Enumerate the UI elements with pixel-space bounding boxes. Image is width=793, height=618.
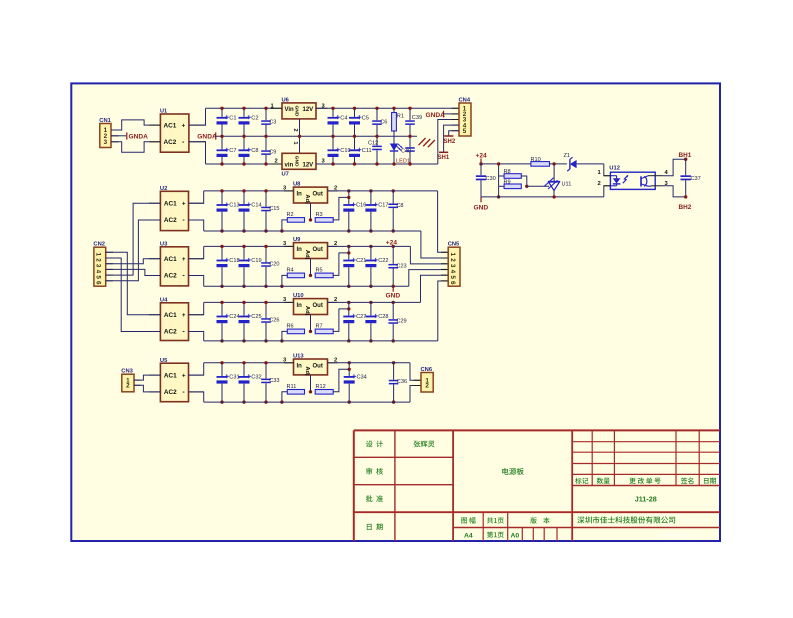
capacitor C26	[261, 302, 279, 341]
svg-text:Adj: Adj	[304, 306, 310, 316]
pin stubs U4	[149, 314, 160, 316]
wire U2 - to bottom rail	[189, 220, 204, 231]
wire CN3 pin1 to U5 AC1	[134, 375, 160, 380]
svg-text:C1: C1	[229, 116, 236, 122]
wire R11 left to bottom rail	[282, 392, 287, 402]
wire row5 return to CN6 pin2	[410, 386, 421, 403]
svg-text:2: 2	[292, 128, 298, 131]
svg-text:GND: GND	[293, 156, 299, 167]
svg-text:C37: C37	[691, 176, 701, 182]
svg-text:SH2: SH2	[444, 139, 456, 145]
svg-text:CN2: CN2	[93, 242, 105, 248]
junction Adj/R6/R7	[309, 330, 312, 333]
svg-text:WENKU.SO: WENKU.SO	[661, 533, 700, 540]
resistor R5	[315, 268, 333, 278]
wire opto top rail	[481, 163, 531, 165]
capacitor C31	[217, 363, 240, 402]
wire R5 right up to output	[333, 253, 349, 276]
svg-text:Adj: Adj	[304, 250, 310, 260]
wire R2 left to bottom rail	[282, 220, 287, 231]
wire row4 output to CN5 pin5	[421, 275, 449, 302]
wire CN2 pin5 to U2 AC1	[106, 203, 161, 275]
power port +24 (opto)	[476, 153, 488, 164]
junction dots C28	[369, 301, 372, 304]
svg-text:AC2: AC2	[164, 217, 177, 224]
svg-text:R10: R10	[531, 157, 541, 163]
earth symbol row1 mid rail	[419, 138, 435, 147]
svg-text:C2: C2	[251, 116, 258, 122]
wire CN2 pin1 to U4 AC1	[106, 252, 161, 314]
svg-text:Adj: Adj	[304, 194, 310, 204]
rectifier U3	[160, 242, 189, 286]
svg-text:+24: +24	[386, 239, 398, 246]
junction R4 at bottom rail	[280, 285, 283, 288]
pin stubs U1	[150, 124, 161, 126]
wire U1 - output to bottom rail	[189, 142, 206, 164]
wire U5 + to top rail	[189, 363, 204, 375]
svg-text:GNDA: GNDA	[426, 112, 446, 119]
LED LED1	[390, 144, 410, 165]
svg-text:+: +	[182, 200, 186, 207]
junction R10 right	[552, 162, 555, 165]
connector CN2	[93, 242, 105, 287]
junction dots C36	[392, 361, 395, 364]
svg-text:In: In	[297, 192, 303, 198]
wire CN1 pin2 stub	[111, 135, 126, 137]
resistor R7	[315, 324, 333, 334]
svg-text:Out: Out	[313, 247, 323, 253]
wire bottom rail to U12 pin2	[604, 186, 611, 197]
svg-text:CN1: CN1	[99, 118, 111, 124]
capacitor C32	[239, 363, 262, 402]
wire bottom rail to CN4 pin3	[438, 120, 459, 165]
wire U3 - to bottom rail	[189, 276, 204, 287]
svg-text:AC2: AC2	[164, 389, 177, 396]
svg-text:R2: R2	[287, 212, 294, 218]
svg-text:C19: C19	[251, 258, 261, 264]
capacitor C12	[368, 136, 382, 164]
capacitor C11	[349, 136, 372, 164]
svg-text:C31: C31	[229, 375, 239, 381]
capacitor C24	[217, 302, 240, 341]
capacitor C8	[388, 191, 403, 231]
wire U9 Adj down	[310, 259, 312, 276]
resistor R11	[287, 384, 305, 394]
svg-text:C8: C8	[396, 203, 403, 209]
junction dots C23	[392, 245, 395, 248]
svg-text:C5: C5	[362, 116, 369, 122]
svg-text:A4: A4	[464, 532, 473, 539]
capacitor C9	[261, 136, 276, 164]
junction R2 at bottom rail	[280, 229, 283, 232]
capacitor C2	[239, 108, 259, 136]
svg-text:4: 4	[95, 270, 102, 274]
svg-text:3: 3	[95, 264, 102, 268]
wire row top rail (U13)	[204, 362, 294, 364]
node +24 junction	[479, 162, 482, 165]
svg-text:C24: C24	[229, 314, 239, 320]
wire R9 junction to U11 ref	[527, 185, 549, 187]
svg-text:+24: +24	[476, 153, 488, 160]
svg-text:U8: U8	[293, 182, 301, 188]
svg-text:5: 5	[95, 275, 102, 279]
rectifier U2	[160, 186, 189, 231]
svg-text:U13: U13	[293, 354, 304, 360]
junction Adj/R4/R5	[309, 274, 312, 277]
svg-text:CN5: CN5	[448, 242, 460, 248]
wire row4 return to CN5 pin6	[438, 281, 448, 341]
svg-text:C21: C21	[356, 258, 366, 264]
pin stubs U8	[284, 190, 294, 192]
svg-text:GNDA: GNDA	[129, 134, 149, 141]
wire U13 Adj down	[310, 375, 312, 392]
wire CN4 pin5 to SH2	[449, 131, 459, 136]
resistor R12	[315, 384, 333, 394]
svg-text:C40: C40	[401, 149, 411, 155]
junction C34 taps	[348, 361, 351, 364]
junction opto left bottom	[497, 195, 500, 198]
pin stubs U12	[604, 175, 611, 177]
svg-text:AC2: AC2	[164, 273, 177, 280]
junction dots left caps	[220, 361, 223, 364]
svg-text:R4: R4	[287, 268, 294, 274]
capacitor C7	[217, 136, 237, 164]
svg-text:AC1: AC1	[164, 256, 177, 263]
svg-text:Out: Out	[313, 192, 323, 198]
resistor R3	[315, 212, 333, 222]
wire row1 bottom rail right	[316, 163, 438, 165]
capacitor C25	[239, 302, 262, 341]
connector CN6	[421, 367, 434, 392]
pin stubs CN5	[441, 251, 448, 253]
wire U4 + to top rail	[189, 302, 204, 314]
capacitor C23	[388, 246, 406, 286]
pin stubs CN3	[134, 379, 141, 381]
capacitor C20	[261, 246, 279, 286]
svg-text:AC1: AC1	[164, 372, 177, 379]
svg-text:U10: U10	[293, 293, 304, 299]
power port GND (row3)	[386, 286, 401, 299]
svg-text:AC2: AC2	[164, 139, 177, 146]
capacitor C5	[349, 108, 369, 136]
schematic sheet	[71, 83, 720, 541]
svg-text:SH1: SH1	[438, 155, 450, 161]
regulator U7	[282, 153, 317, 177]
rectifier U5	[160, 358, 189, 402]
svg-text:Out: Out	[313, 303, 323, 309]
power port GNDA (left)	[127, 132, 148, 140]
pin stubs CN1	[111, 129, 119, 131]
svg-text:R1: R1	[397, 113, 404, 119]
svg-text:5: 5	[463, 128, 467, 135]
svg-text:+: +	[182, 122, 186, 129]
wire opto left divider vertical	[498, 164, 500, 197]
svg-text:12V: 12V	[303, 107, 314, 113]
resistor R8	[499, 169, 522, 178]
resistor R2	[287, 212, 305, 222]
wire U1 + output to top rail	[189, 108, 206, 125]
capacitor C30	[476, 164, 496, 197]
wire CN1 pin1 to U1 AC1	[111, 120, 160, 130]
wire row5 output rail	[328, 362, 411, 364]
capacitor C34	[344, 363, 367, 402]
svg-text:12V: 12V	[303, 162, 314, 168]
svg-text:U12: U12	[609, 166, 620, 172]
svg-text:LED1: LED1	[396, 158, 410, 164]
wire row top rail (U10)	[204, 301, 294, 303]
capacitor C36	[389, 363, 407, 402]
svg-text:R8: R8	[504, 169, 511, 175]
wire row3 return to CN5 pin4	[409, 270, 448, 287]
connector CN3	[121, 369, 134, 392]
resistor R10	[531, 157, 550, 166]
svg-text:C17: C17	[378, 203, 388, 209]
svg-text:C29: C29	[396, 319, 406, 325]
junction dots row1 right rails	[331, 107, 334, 110]
svg-text:U6: U6	[282, 98, 290, 104]
wire U12 pin4 to BH1	[663, 159, 686, 176]
svg-text:C28: C28	[378, 314, 388, 320]
capacitor C17	[365, 191, 388, 231]
connector CN5	[448, 242, 460, 287]
wire R4 left to bottom rail	[282, 275, 287, 286]
capacitor C15	[261, 191, 279, 231]
wire CN3 pin2 to U5 AC2	[134, 385, 160, 392]
capacitor C10	[328, 136, 351, 164]
wire row2 output rail	[328, 190, 438, 192]
svg-text:6: 6	[95, 281, 102, 285]
svg-text:+: +	[182, 372, 186, 379]
capacitor C13	[217, 191, 240, 231]
wire R12 right up to output	[333, 369, 349, 392]
svg-text:3: 3	[104, 139, 108, 146]
title block frame	[354, 430, 720, 541]
svg-text:C30: C30	[486, 176, 496, 182]
svg-text:GNDA: GNDA	[197, 134, 217, 141]
svg-text:4: 4	[449, 270, 456, 274]
capacitor C1	[217, 108, 237, 136]
svg-text:U9: U9	[293, 237, 301, 243]
junction dots left caps	[220, 301, 223, 304]
wire row2 output to CN5 pin1	[438, 191, 449, 252]
svg-text:U7: U7	[282, 172, 289, 178]
wire U8 Adj down	[310, 203, 312, 220]
svg-text:C33: C33	[269, 378, 279, 384]
wire opto bottom rail	[481, 196, 604, 198]
wire opto top rail into U12 pin1	[604, 164, 611, 176]
svg-text:CN3: CN3	[121, 369, 133, 375]
svg-text:2: 2	[425, 383, 429, 390]
regulator U9	[293, 237, 328, 260]
junction dots row1 left rails	[220, 107, 223, 110]
wire U3 + to top rail	[189, 246, 204, 258]
svg-text:+: +	[182, 312, 186, 319]
wire R10 junction down to U11	[553, 164, 555, 182]
svg-text:C8: C8	[251, 148, 258, 154]
wire CN2 pin4 to U3 AC2	[106, 269, 161, 275]
junction U11 cathode bottom	[552, 195, 555, 198]
svg-text:C22: C22	[378, 258, 388, 264]
svg-text:C12: C12	[368, 140, 378, 146]
pin stubs U5	[149, 374, 160, 376]
junction R6 at bottom rail	[280, 339, 283, 342]
pin stubs U7	[271, 163, 283, 165]
regulator U10	[293, 293, 328, 316]
svg-text:C3: C3	[269, 120, 276, 126]
svg-text:CN6: CN6	[421, 367, 433, 373]
wire U4 - to bottom rail	[189, 332, 204, 341]
pin stubs U13	[284, 362, 294, 364]
svg-text:U5: U5	[160, 358, 168, 364]
svg-text:U4: U4	[160, 298, 168, 304]
svg-text:J11-28: J11-28	[635, 495, 657, 504]
wire U12 pin3 to BH2	[663, 186, 686, 197]
wire row2 return to CN5 pin2	[421, 231, 448, 258]
regulator U6	[282, 98, 317, 119]
svg-text:C18: C18	[229, 258, 239, 264]
wire U6 GND to U7 GND	[299, 119, 301, 153]
svg-text:R11: R11	[287, 384, 297, 390]
svg-text:6: 6	[449, 281, 456, 285]
pin stubs U6	[271, 107, 283, 109]
junction dots C22	[369, 245, 372, 248]
resistor R9	[499, 179, 522, 188]
wire R6 left to bottom rail	[282, 331, 287, 341]
pin stubs U9	[284, 245, 294, 247]
svg-text:2: 2	[598, 181, 601, 187]
capacitor C40	[401, 136, 415, 164]
junction C16 taps	[347, 189, 350, 192]
wire row1 mid rail	[216, 135, 417, 137]
capacitor C16	[343, 191, 366, 231]
capacitor C3	[261, 108, 276, 136]
svg-text:+: +	[182, 256, 186, 263]
resistor R4	[287, 268, 305, 278]
wire row3 bottom rail	[204, 285, 409, 287]
junction opto left top	[497, 162, 500, 165]
svg-text:C27: C27	[356, 314, 366, 320]
svg-text:Vin: Vin	[285, 107, 295, 113]
rectifier U1	[160, 109, 189, 153]
svg-text:C15: C15	[269, 206, 279, 212]
svg-text:R3: R3	[316, 212, 323, 218]
junction C27 taps	[347, 301, 350, 304]
wire CN2 pin3 to U3 AC1	[106, 259, 161, 264]
mounting hole SH1	[438, 152, 450, 161]
capacitor C28	[365, 302, 388, 341]
wire row3 output rail	[328, 245, 411, 247]
regulator U13	[293, 354, 328, 377]
pin stubs CN2	[106, 251, 113, 253]
svg-text:3: 3	[449, 264, 456, 268]
svg-text:5: 5	[449, 275, 456, 279]
wire R7 right up to output	[333, 309, 349, 332]
svg-text:C11: C11	[362, 148, 372, 154]
junction Adj/R2/R3	[309, 218, 312, 221]
wire row4 output rail	[328, 301, 421, 303]
svg-text:C14: C14	[251, 203, 261, 209]
svg-text:C39: C39	[412, 115, 422, 121]
node BH1	[679, 152, 692, 161]
wire row5 output to CN6 pin1	[410, 363, 421, 381]
wire CN2 pin2 to U4 AC2	[106, 258, 161, 332]
wire row2 bottom rail	[204, 230, 421, 232]
capacitor C14	[239, 191, 262, 231]
svg-text:GND: GND	[293, 105, 299, 116]
node BH2	[679, 195, 692, 211]
wire U10 Adj down	[310, 315, 312, 332]
wire row top rail (U8)	[204, 190, 294, 192]
svg-text:R5: R5	[316, 268, 323, 274]
svg-text:C16: C16	[356, 203, 366, 209]
svg-text:R6: R6	[287, 324, 294, 330]
svg-text:U2: U2	[160, 186, 167, 192]
junction dots left caps	[220, 189, 223, 192]
wire row top rail (U9)	[204, 245, 294, 247]
svg-text:Out: Out	[313, 363, 323, 369]
pin stubs CN6	[414, 379, 422, 381]
svg-text:In: In	[297, 303, 303, 309]
wire row3 output to CN5 pin3	[410, 246, 448, 264]
capacitor C37	[681, 159, 701, 197]
svg-text:C6: C6	[380, 120, 387, 126]
regulator U8	[293, 182, 328, 205]
pin stubs U2	[149, 202, 160, 204]
junction dots left caps	[220, 245, 223, 248]
svg-text:Z1: Z1	[564, 153, 571, 159]
svg-text:vin: vin	[285, 162, 294, 168]
svg-text:CN4: CN4	[459, 98, 471, 104]
wire CN1 pin3 to U1 AC2	[111, 142, 160, 152]
svg-text:U3: U3	[160, 242, 168, 248]
wire row1 bottom rail left	[206, 163, 283, 165]
wire CN4 pin4 to SH1	[444, 125, 459, 152]
svg-text:2: 2	[126, 383, 130, 390]
capacitor C22	[365, 246, 388, 286]
svg-text:GND: GND	[474, 205, 489, 212]
svg-text:C26: C26	[269, 318, 279, 324]
junction U6/U7 GND at mid rail	[298, 135, 301, 138]
power port GNDA (row1 mid rail)	[197, 132, 217, 140]
power port +24 (row3)	[386, 239, 398, 246]
svg-text:BH2: BH2	[679, 204, 692, 211]
wire U2 + to top rail	[189, 191, 204, 203]
capacitor C39	[405, 108, 422, 136]
svg-text:C20: C20	[269, 262, 279, 268]
capacitor C19	[239, 246, 262, 286]
svg-text:C36: C36	[397, 379, 407, 385]
resistor R1	[392, 108, 404, 143]
svg-text:AC1: AC1	[164, 200, 177, 207]
title block texts	[366, 441, 716, 540]
junction dots C8	[392, 189, 395, 192]
svg-text:1: 1	[449, 253, 456, 257]
capacitor C8	[239, 136, 259, 164]
capacitor C4	[328, 108, 348, 136]
svg-text:2: 2	[449, 258, 456, 262]
svg-text:2: 2	[95, 258, 102, 262]
svg-text:AC1: AC1	[164, 122, 177, 129]
svg-text:A0: A0	[510, 532, 519, 539]
zener diode Z1	[564, 153, 577, 171]
capacitor C33	[261, 363, 279, 402]
pin stubs U3	[149, 258, 160, 260]
connector CN1	[99, 118, 111, 148]
power port GND (opto)	[474, 197, 489, 212]
capacitor C6	[372, 108, 387, 136]
pin stubs CN4	[452, 107, 460, 109]
svg-text:C23: C23	[396, 263, 406, 269]
